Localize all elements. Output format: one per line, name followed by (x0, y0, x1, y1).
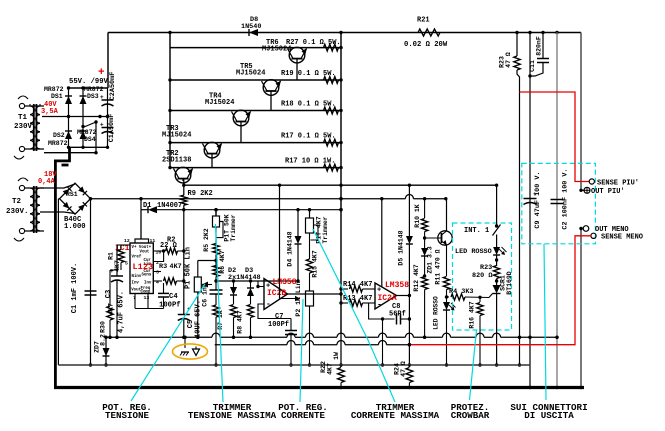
resistor R24 (394, 361, 413, 389)
resistor R3 (153, 263, 184, 284)
svg-text:T2: T2 (12, 198, 22, 206)
svg-text:Comp: Comp (141, 291, 151, 295)
label IC2A LM358 (378, 281, 410, 303)
svg-text:R12 4K7: R12 4K7 (413, 264, 420, 291)
svg-text:R11 470 Ω: R11 470 Ω (435, 249, 442, 284)
svg-text:+: + (110, 268, 114, 275)
resistor R14 (339, 281, 372, 292)
svg-text:1.000: 1.000 (64, 223, 86, 231)
capacitor C7 (268, 313, 297, 367)
svg-text:R18 0.1 Ω 5W.: R18 0.1 Ω 5W. (281, 101, 336, 109)
svg-text:C6 1nF: C6 1nF (202, 283, 209, 307)
svg-text:MR872: MR872 (48, 140, 68, 147)
svg-text:R9 2K2: R9 2K2 (188, 190, 213, 198)
svg-text:R30: R30 (100, 321, 107, 333)
svg-text:D1: D1 (143, 202, 151, 210)
wire ladder row 2 (170, 79, 341, 81)
diode DS1 (44, 86, 72, 147)
label L123 (133, 262, 154, 272)
wire rect bottom rail (67, 146, 109, 149)
resistor R17 row4 (281, 133, 339, 147)
wire ladder row 1 (170, 47, 341, 49)
capacitor C9 (524, 171, 543, 228)
capacitor C3 (105, 245, 126, 339)
svg-text:CORRENTE MASSIMA: CORRENTE MASSIMA (351, 410, 440, 421)
potentiometer P1 (185, 247, 217, 339)
svg-text:R27 0.1 Ω 5W.: R27 0.1 Ω 5W. (286, 39, 341, 47)
zener ZD1 (421, 238, 433, 278)
svg-text:R3: R3 (159, 263, 167, 271)
wire thick bottom bus (54, 386, 584, 389)
svg-text:C2A50mF: C2A50mF (109, 72, 117, 101)
caption TRIMMER TENSIONE MASSIMA (188, 402, 277, 421)
svg-text:Vref: Vref (132, 255, 142, 260)
svg-text:Inv: Inv (132, 282, 140, 286)
svg-text:-: - (266, 300, 271, 309)
svg-text:0.02 Ω 20W: 0.02 Ω 20W (404, 41, 448, 49)
output dashed box (522, 163, 596, 243)
svg-text:OUT PIU': OUT PIU' (591, 188, 625, 196)
label IC1 (115, 244, 130, 253)
capacitor C2A (100, 72, 117, 148)
resistor R23 47ohm (499, 33, 522, 367)
wire T2 to bridge (40, 184, 75, 214)
wire x530 vertical (528, 33, 531, 390)
callout trimmer corrente (313, 229, 395, 402)
svg-text:820 Ω: 820 Ω (472, 272, 492, 280)
capacitor C6 (202, 277, 223, 307)
svg-text:DS4: DS4 (84, 136, 96, 143)
capacitor C8 (389, 303, 409, 325)
svg-text:D5 1N4148: D5 1N4148 (398, 230, 405, 265)
diode D2 (228, 267, 261, 304)
svg-text:1N540: 1N540 (241, 23, 261, 31)
wire IC2A out (397, 294, 412, 297)
bridge rectifier RS1 (60, 183, 91, 231)
svg-text:11: 11 (150, 238, 156, 244)
switch INT1 (464, 184, 501, 248)
diode DS3 (80, 86, 104, 147)
resistor R7 (213, 305, 224, 367)
resistor R27 row1 (286, 39, 341, 51)
svg-text:R16 4K7: R16 4K7 (469, 301, 476, 328)
wire IC2B out (288, 293, 342, 295)
zener ZD7 (94, 334, 110, 367)
svg-text:2SD1138: 2SD1138 (162, 157, 191, 165)
label 55V/99V (69, 67, 112, 86)
svg-text:R21: R21 (417, 17, 430, 25)
svg-text:R8 4K7: R8 4K7 (237, 310, 244, 334)
capacitor C1A (100, 114, 116, 143)
svg-text:RS1: RS1 (66, 191, 78, 198)
resistor R30 (100, 270, 118, 339)
svg-text:1N4007: 1N4007 (157, 202, 182, 210)
wire gray vertical x581 (579, 33, 582, 390)
wire gray vertical x557 (555, 33, 558, 390)
svg-text:100Pf: 100Pf (159, 302, 181, 310)
callout sui connettori (544, 244, 546, 400)
svg-text:TENSIONE MASSIMA: TENSIONE MASSIMA (188, 410, 277, 421)
wire TR2 base to R9 (182, 178, 185, 195)
svg-text:R15 4K7: R15 4K7 (312, 250, 319, 277)
svg-text:DS1: DS1 (51, 93, 63, 100)
svg-text:22 Ω: 22 Ω (160, 242, 178, 250)
IC U1 L123 regulator (124, 210, 165, 301)
op-amp IC2B (256, 279, 291, 319)
svg-text:820nF: 820nF (536, 36, 543, 56)
svg-text:TENSIONE: TENSIONE (105, 410, 150, 421)
diode D8 (241, 16, 261, 36)
terminal SENSE MENO (591, 233, 643, 242)
callout pot reg tensione (131, 284, 205, 401)
crowbar dashed box (453, 223, 512, 330)
caption SUI CONNETTORI DI USCITA (510, 402, 587, 421)
svg-text:IC2A: IC2A (378, 294, 397, 303)
ground chassis tie (55, 147, 69, 387)
svg-text:R4 3K3: R4 3K3 (449, 288, 473, 296)
capacitor C1 (71, 199, 97, 367)
svg-text:C4: C4 (169, 293, 178, 301)
resistor R1 (108, 245, 131, 272)
thyristor SCR1 (489, 271, 513, 367)
svg-text:Inv: Inv (144, 282, 152, 286)
terminal SENSE PIU (589, 179, 639, 187)
resistor R15 (306, 243, 318, 291)
wire ladder row 3 (170, 110, 341, 112)
svg-text:47 Ω: 47 Ω (400, 361, 407, 377)
svg-text:2x1N4148: 2x1N4148 (228, 274, 261, 282)
svg-text:R6 4K7: R6 4K7 (219, 250, 226, 274)
wire rail 0V (58, 364, 530, 366)
svg-text:LED ROSSO: LED ROSSO (455, 248, 492, 256)
transistor TR5 (236, 63, 281, 111)
resistor R4 (447, 288, 490, 300)
transistor TR2 (162, 150, 193, 183)
svg-text:MJ15024: MJ15024 (205, 99, 234, 107)
svg-text:R23: R23 (480, 264, 492, 272)
caption TRIMMER CORRENTE MASSIMA (351, 402, 440, 421)
resistor R8 (237, 305, 254, 339)
svg-text:MR872: MR872 (77, 129, 97, 136)
wire rail busB (215, 341, 411, 347)
wire ladder left bus (168, 33, 171, 170)
svg-text:MJ15024: MJ15024 (162, 132, 191, 140)
svg-text:L123: L123 (133, 262, 154, 272)
terminal OUT MENO (579, 226, 628, 235)
svg-text:C11: C11 (529, 60, 536, 72)
svg-text:0,4A: 0,4A (38, 178, 56, 186)
svg-text:Ninv: Ninv (132, 274, 142, 279)
svg-text:CROWBAR: CROWBAR (451, 410, 490, 421)
svg-text:DI USCITA: DI USCITA (524, 410, 574, 421)
svg-text:55V. /99V.: 55V. /99V. (69, 78, 112, 86)
capacitor C4 (135, 283, 181, 310)
svg-text:230V.: 230V. (6, 208, 29, 216)
svg-text:MJ15024: MJ15024 (236, 70, 265, 78)
op-amp IC2A (369, 283, 397, 321)
trimmer P1T 50K (213, 208, 237, 244)
wire RS1 minus down (58, 199, 59, 365)
svg-text:10: 10 (156, 250, 162, 256)
resistor R18 row3 (281, 101, 339, 114)
diode DS2 (48, 131, 72, 147)
callout protez crowbar (470, 330, 477, 400)
svg-text:P1 50K Lin: P1 50K Lin (185, 247, 193, 289)
svg-text:R17 10 Ω 1W.: R17 10 Ω 1W. (285, 158, 335, 166)
svg-text:4: 4 (156, 280, 159, 286)
wire emitter bus y185 (184, 184, 497, 187)
led LED1 rosso (455, 247, 507, 266)
resistor R11 (435, 245, 450, 302)
svg-text:R7 1K: R7 1K (217, 310, 224, 330)
ground symbols (173, 336, 208, 360)
terminal OUT PIU (579, 187, 624, 196)
transformer T1 (14, 96, 44, 159)
svg-text:CORRENTE: CORRENTE (281, 410, 326, 421)
svg-text:R5 2K2: R5 2K2 (203, 228, 210, 252)
svg-text:4K7: 4K7 (170, 263, 182, 271)
svg-text:C1A50mF: C1A50mF (108, 114, 116, 143)
svg-text:LM358: LM358 (273, 278, 297, 287)
caption POT. REG. CORRENTE (278, 402, 328, 421)
label T2 secondary rating (38, 171, 57, 186)
svg-text:MR872: MR872 (44, 86, 64, 93)
svg-text:R17 0.1 Ω 5W.: R17 0.1 Ω 5W. (281, 133, 336, 141)
capacitor C11 (528, 33, 549, 78)
svg-text:4K7: 4K7 (108, 303, 115, 315)
wire ladder right bus (339, 33, 342, 334)
svg-text:+: + (100, 94, 104, 101)
svg-text:C9 47uF 100 V.: C9 47uF 100 V. (534, 171, 542, 228)
svg-text:C7: C7 (275, 313, 283, 321)
resistor R8a (230, 305, 236, 339)
label T1 secondary rating (41, 101, 59, 116)
resistor R13 (339, 295, 375, 306)
svg-text:100Pf: 100Pf (268, 321, 289, 329)
svg-text:+: + (100, 122, 104, 129)
wire ladder bus lower (339, 333, 342, 366)
svg-text:47 Ω: 47 Ω (505, 52, 512, 68)
wire diode rail (216, 279, 300, 282)
svg-text:R19 0.1 Ω 5W.: R19 0.1 Ω 5W. (281, 70, 336, 78)
transistor TR3 (162, 125, 222, 168)
diode DS4 (77, 129, 97, 143)
wire bus1 to bus2 drop (140, 199, 142, 210)
svg-text:Vout: Vout (140, 251, 150, 255)
label IC2B LM358 (267, 278, 297, 298)
caption PROTEZ. CROWBAR (451, 402, 490, 421)
wire caps to top bus (107, 33, 109, 89)
wire rect return rail (44, 151, 98, 154)
resistor R17 row5 (285, 158, 339, 172)
svg-text:IC2B: IC2B (267, 289, 286, 298)
svg-text:+: + (98, 67, 105, 79)
wire IC2A plus supply (381, 199, 383, 287)
potentiometer P2 (295, 281, 314, 366)
diode D4 (287, 210, 302, 281)
resistor R10 (414, 199, 428, 238)
diode D5 (398, 185, 413, 366)
svg-text:T1: T1 (18, 114, 28, 122)
svg-text:ZD1 3.3: ZD1 3.3 (427, 246, 434, 273)
caption POT. REG. TENSIONE (102, 402, 152, 421)
transistor TR1 (423, 199, 452, 246)
wire rail busA (104, 333, 558, 339)
svg-text:56Pf: 56Pf (389, 311, 406, 319)
svg-text:MR872: MR872 (84, 86, 104, 93)
wire red sense- bottom (409, 236, 591, 345)
resistor R5 (203, 228, 219, 267)
callout trimmer tensione (216, 224, 224, 402)
transformer T2 (6, 178, 44, 241)
resistor R22 (320, 352, 344, 389)
resistor R9 (181, 190, 213, 315)
svg-text:INT. 1: INT. 1 (464, 227, 489, 235)
svg-text:1W: 1W (333, 352, 340, 360)
svg-text:MJ15024: MJ15024 (262, 46, 291, 54)
diode D1 (141, 202, 343, 213)
resistor R6 (213, 250, 226, 276)
svg-text:SENSE PIU': SENSE PIU' (597, 179, 639, 187)
capacitor C2 (551, 168, 570, 229)
resistor R21 (404, 17, 448, 50)
wire IC2A fb column (381, 319, 384, 367)
wire T1 sec to rectifier (42, 115, 109, 153)
svg-text:DS2: DS2 (53, 132, 65, 139)
svg-text:R14 4K7: R14 4K7 (343, 281, 372, 289)
capacitor C5 (178, 300, 203, 339)
svg-text:Trimmer: Trimmer (322, 216, 329, 243)
wire P2 wiper (280, 185, 301, 301)
led LED2 rosso (433, 296, 456, 367)
svg-text:Trimmer: Trimmer (230, 214, 237, 241)
svg-text:DS3: DS3 (87, 93, 99, 100)
callout pot reg corrente (300, 299, 303, 402)
svg-text:LM358: LM358 (385, 281, 409, 290)
wire red sense+ top (520, 92, 590, 182)
wire rect top rail (67, 86, 108, 89)
trimmer P2T 4K7 (306, 210, 330, 244)
diode D3 (247, 281, 254, 304)
svg-text:R1: R1 (108, 252, 115, 260)
svg-text:BT169D: BT169D (506, 271, 513, 295)
svg-text:SENSE MENO: SENSE MENO (601, 234, 643, 242)
svg-text:Sens: Sens (142, 274, 152, 278)
transistor TR4 (205, 93, 251, 143)
resistor R19 row2 (281, 70, 339, 83)
svg-text:C2 100nF 100 V.: C2 100nF 100 V. (562, 168, 570, 229)
resistor R23 crowbar (472, 264, 500, 285)
svg-text:4,7uF 65V.: 4,7uF 65V. (118, 291, 126, 333)
transistor TR6 (262, 39, 307, 80)
svg-text:R10 1K: R10 1K (414, 204, 421, 228)
resistor R12 (413, 264, 428, 339)
wire main rail bus1 (89, 195, 448, 201)
svg-text:V+ Vout+: V+ Vout+ (132, 246, 152, 250)
wire ladder row 5 (170, 167, 341, 169)
svg-text:D4 1N4148: D4 1N4148 (287, 231, 294, 266)
svg-text:LED ROSSO: LED ROSSO (433, 296, 440, 330)
svg-text:4K7: 4K7 (327, 363, 334, 375)
svg-text:230V.: 230V. (14, 123, 37, 131)
resistor R16 (469, 297, 484, 366)
resistor R2 (153, 237, 184, 255)
wire top +V bus (108, 31, 581, 34)
svg-text:3,5A: 3,5A (41, 108, 59, 116)
wire ladder row 4 (170, 142, 341, 144)
svg-text:C1 1mF 100V.: C1 1mF 100V. (71, 263, 79, 313)
svg-text:C3: C3 (105, 290, 113, 298)
